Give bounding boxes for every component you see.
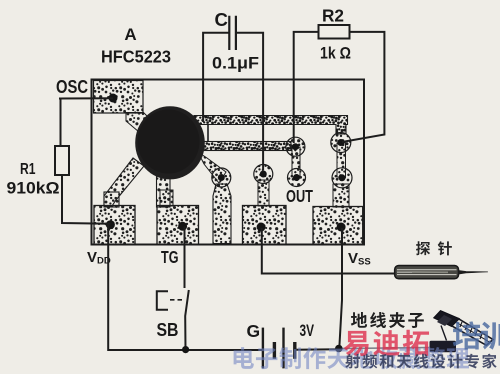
svg-text:A: A [124, 25, 136, 44]
IC die (black blob) [135, 106, 205, 179]
battery plate short 1 [273, 342, 276, 359]
dot pad D [260, 171, 267, 178]
watermark blue row (dian zi zhi zuo ...) [234, 347, 469, 369]
svg-text:HFC5223: HFC5223 [101, 47, 171, 67]
bond dot pad3 [257, 223, 266, 232]
clip slab [430, 341, 457, 353]
svg-text:OSC: OSC [56, 77, 88, 97]
svg-text:TG: TG [161, 247, 179, 267]
wire OSC label to pad dot [59, 97, 113, 99]
wire R2 left [294, 32, 319, 143]
wire OUT pad to probe [262, 228, 395, 274]
svg-text:1k Ω: 1k Ω [320, 44, 351, 63]
clip boot [434, 311, 460, 327]
capacitor C plates [229, 16, 236, 50]
die trace to TG pad (vertical) [157, 172, 171, 207]
trace pad A to pad E [292, 147, 300, 177]
bond dot Vss [337, 223, 346, 232]
wire C right [236, 33, 263, 170]
die trace to Vdd pad (diagonal) [104, 158, 144, 206]
probe body [395, 266, 488, 279]
wire R1 bottom to module [62, 175, 110, 224]
trace pad C down to bottom edge [213, 184, 231, 244]
wire OSC down to R1 [60, 99, 62, 147]
alligator clip [430, 311, 494, 353]
dot pad E [293, 174, 300, 181]
Vdd pad stem [104, 192, 119, 207]
module outline (hybrid substrate) [92, 80, 365, 245]
wire TG down to switch [184, 227, 186, 289]
dot pad F [339, 174, 346, 181]
svg-text:R2: R2 [322, 6, 344, 26]
svg-text:3V: 3V [300, 321, 315, 340]
wire trace1-trace2 link [207, 124, 209, 142]
svg-text:OUT: OUT [286, 186, 313, 206]
resistor R2 [319, 25, 350, 39]
stem pad D to pad3 [258, 180, 269, 206]
round pad C [212, 168, 231, 187]
trace2 horizontal (to pad A) [199, 142, 291, 151]
round pad D [254, 165, 273, 184]
wire C left [203, 33, 229, 122]
wire Vss down to ground junction [339, 228, 342, 348]
clip jaws [452, 319, 493, 346]
battery plate short 2 [293, 342, 296, 359]
Vss pad [313, 207, 363, 245]
bond dot Vdd [106, 220, 115, 229]
switch SB dashed link [170, 299, 184, 301]
label ground clip (di xian jia zi) [351, 312, 424, 328]
svg-text:0.1μF: 0.1μF [212, 54, 259, 73]
diagonal die to pad C [198, 152, 226, 183]
round pad F [332, 168, 352, 188]
stem pad F to Vss pad [333, 184, 349, 207]
OSC pad (stippled) [94, 81, 144, 114]
watermark red yi di tuo [344, 330, 429, 357]
trace pad B to pad F [337, 143, 346, 177]
switch SB actuator bracket [157, 291, 168, 310]
svg-text:R1: R1 [20, 161, 36, 178]
round pad A [286, 137, 305, 156]
watermark gray row (she pin ...) [345, 354, 496, 369]
dot pad B [337, 139, 344, 146]
svg-text:C: C [215, 9, 228, 30]
dot pad C [218, 174, 225, 181]
wire battery to ground junction [295, 348, 339, 351]
battery plate long 1 [262, 328, 264, 369]
pad3 (OUT pad) [243, 206, 287, 245]
wire Vdd down to bottom rail [108, 225, 263, 350]
round pad E [288, 169, 306, 187]
TG pad [157, 206, 199, 245]
battery plate long 2 [282, 328, 284, 369]
switch SB blade [185, 290, 189, 349]
TG pad stem [160, 190, 173, 206]
OSC pad to die link [126, 113, 151, 133]
resistor R1 [55, 146, 69, 175]
probe needle [459, 271, 488, 275]
watermark blue pei xun [453, 321, 500, 349]
svg-text:SB: SB [157, 319, 179, 340]
bond dot TG [178, 222, 187, 231]
svg-text:910kΩ: 910kΩ [7, 180, 60, 198]
bond dot OSC [109, 94, 118, 103]
wire junction to clip [341, 348, 430, 349]
junction dot SB/rail [182, 346, 189, 353]
svg-text:G: G [247, 321, 261, 341]
dot pad A [292, 143, 299, 150]
clip lower arm [441, 326, 447, 341]
round pad B [331, 133, 351, 153]
label probe (tan zhen) [416, 241, 452, 255]
trace1 horizontal (to pad B) [194, 116, 348, 135]
Vdd pad [94, 206, 135, 245]
junction dot ground [335, 345, 343, 353]
wire R2 right to pad B [342, 32, 384, 142]
